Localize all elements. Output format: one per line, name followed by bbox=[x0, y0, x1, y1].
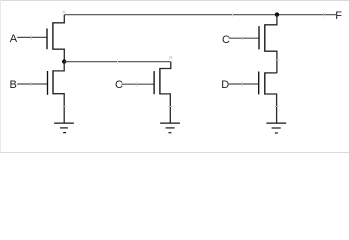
wire handle tick on Q2 ground drop bbox=[62, 106, 66, 108]
wire: top output rail to F bbox=[64, 14, 337, 16]
image frame border top bbox=[0, 0, 349, 2]
transistor Q4 (input C, right top) gate bar bbox=[258, 26, 260, 49]
svg-text:F: F bbox=[335, 10, 342, 22]
transistor Q3 (input C, middle) gate bar bbox=[153, 71, 155, 94]
wire handle tick on Q3 ground drop bbox=[169, 106, 173, 108]
wire: Q2 drain lead and riser to node N1 bbox=[53, 62, 64, 71]
wire handle tick on output rail mid bbox=[232, 13, 234, 17]
wire handle tick on output rail near F bbox=[323, 13, 325, 17]
wire handle tick on Q5 gate lead bbox=[241, 82, 243, 86]
wire handle tick on A gate lead bbox=[30, 36, 32, 40]
wire: Q5 source lead and drop to ground bbox=[265, 94, 277, 123]
junction: output node dot on rail bbox=[275, 12, 279, 16]
transistor Q1 (input A) channel bar bbox=[52, 22, 54, 50]
transistor Q4 (input C, right top) channel bar bbox=[264, 24, 266, 52]
junction: node N1 dot bbox=[62, 59, 66, 63]
wire: gate lead of Q4 from C bbox=[229, 37, 259, 39]
wire: Q3 drain lead and riser to node N1 run bbox=[160, 62, 171, 69]
transistor Q3 (input C, middle) channel bar bbox=[159, 68, 161, 95]
wire: Q3 source lead and drop to ground bbox=[160, 94, 170, 123]
wire: Q4 source lead and series drop to Q5 drain bbox=[265, 51, 277, 73]
wire handle tick on B gate lead bbox=[30, 82, 32, 86]
ground symbol under Q5 bbox=[266, 123, 286, 133]
wire handle tick on Q5 ground drop bbox=[275, 106, 279, 108]
wire: gate lead of Q3 from C bbox=[121, 83, 154, 85]
ground symbol under Q3 bbox=[160, 123, 180, 133]
wire: Q4 drain lead and riser to rail dot bbox=[265, 15, 277, 25]
svg-text:C: C bbox=[222, 34, 230, 46]
wire: gate lead of Q1 from A bbox=[17, 36, 47, 38]
svg-text:B: B bbox=[10, 79, 17, 91]
wire: gate lead of Q5 from D bbox=[229, 83, 259, 85]
transistor Q5 (input D, right bottom) gate bar bbox=[258, 72, 260, 95]
wire handle tick on node N1 run bbox=[117, 60, 119, 64]
transistor Q2 (input B) channel bar bbox=[52, 70, 54, 94]
transistor Q2 (input B) gate bar bbox=[47, 71, 49, 95]
wire: Q1 source lead and drop to node N1 bbox=[53, 49, 64, 61]
svg-text:D: D bbox=[221, 79, 229, 91]
wire: gate lead of Q2 from B bbox=[17, 83, 47, 85]
wire: node N1 horizontal run to Q3 drain bbox=[64, 61, 171, 63]
wire handle tick on Q4 gate lead bbox=[241, 37, 243, 41]
wire endpoint x-mark above Q1 drain rail corner bbox=[62, 10, 65, 13]
wire endpoint x-mark above Q3 drain corner bbox=[169, 56, 172, 59]
svg-text:C: C bbox=[115, 79, 123, 91]
image frame border bottom bbox=[0, 152, 349, 154]
wire: Q2 source lead and drop to ground bbox=[53, 94, 64, 123]
wire handle tick on Q4-Q5 series wire bbox=[275, 59, 279, 61]
ground symbol under Q2 bbox=[54, 123, 74, 133]
svg-text:A: A bbox=[10, 33, 18, 45]
transistor Q1 (input A) gate bar bbox=[46, 29, 48, 50]
transistor Q5 (input D, right bottom) channel bar bbox=[264, 72, 266, 94]
wire: Q1 drain lead and riser to rail bbox=[53, 15, 64, 23]
wire handle tick on Q3 gate lead bbox=[135, 83, 137, 87]
wire: Q5 drain lead from series riser bbox=[265, 72, 277, 74]
image frame border left bbox=[0, 0, 2, 153]
